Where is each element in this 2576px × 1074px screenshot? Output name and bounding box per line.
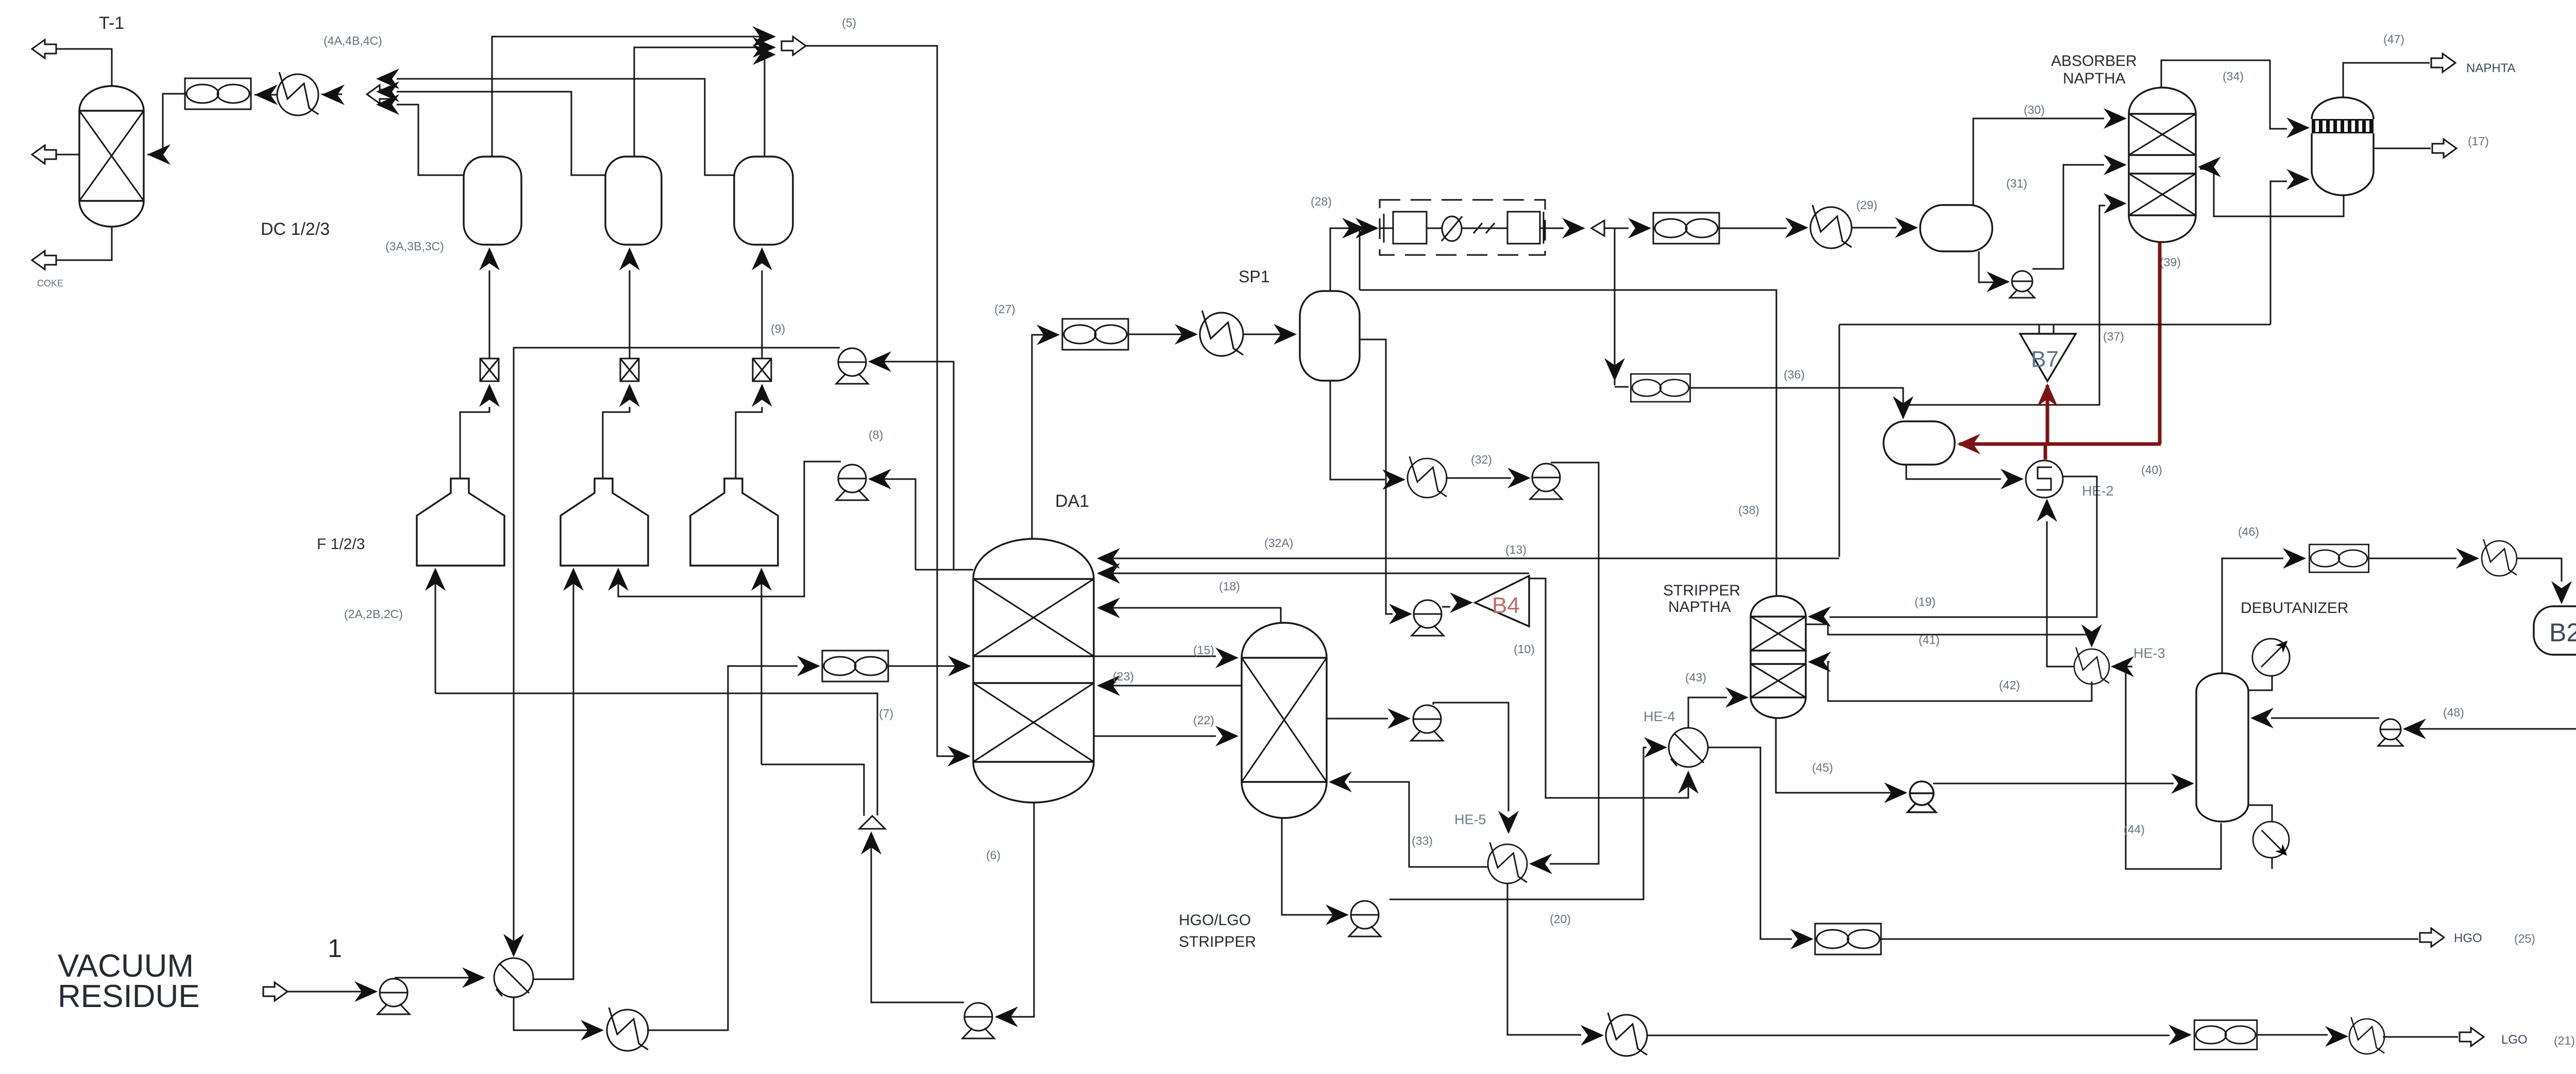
exchanger E-48: [2482, 539, 2517, 576]
pump P-31: [2010, 271, 2035, 298]
svg-text:(28): (28): [1311, 195, 1332, 208]
wire E-1 to E-2: [514, 997, 602, 1030]
air cooler (29a): [1653, 213, 1719, 244]
wire debutanizer bottoms to HE-3 (44): [2126, 667, 2221, 869]
junction (4A,4B,4C) open arrow: [367, 85, 391, 104]
svg-text:(43): (43): [1685, 671, 1706, 684]
pump P-9: [836, 348, 868, 384]
air cooler HGO: [1815, 924, 1881, 954]
wire valve1 to drum: [489, 270, 490, 359]
wire P31 to absorber (31): [2032, 165, 2104, 269]
wire stripperN bottoms to pump45: [1776, 718, 1905, 793]
wire feed to pump: [287, 991, 376, 993]
svg-text:HE-2: HE-2: [2082, 483, 2114, 499]
wire drum1 vapor to (5): [492, 37, 772, 157]
exchanger HE-3: [2074, 647, 2109, 684]
svg-text:(18): (18): [1219, 579, 1240, 593]
svg-text:(33): (33): [1412, 834, 1433, 847]
compressor B4 triangle: [1475, 576, 1529, 626]
wire branch to pump 9: [870, 361, 937, 363]
exchanger E-SP1: [1200, 311, 1243, 356]
wire T-1 bottom coke: [49, 227, 112, 260]
wire E-32 to pump: [1446, 478, 1511, 479]
svg-text:COKE: COKE: [37, 278, 63, 288]
column STRIPPER NAPTHA: [1751, 596, 1806, 718]
wire mixer to furnace3 line: [761, 764, 864, 816]
wire B20 bottoms to pump48: [2405, 655, 2576, 729]
svg-text:(34): (34): [2223, 70, 2244, 83]
pump P-22: [1411, 705, 1443, 741]
off-page arrow coke: [32, 251, 56, 269]
compressor dashed enclosure: [1380, 200, 1545, 255]
wire (13) recycle to DA1: [1099, 558, 1839, 559]
wire pump9 discharge to feed preheat: [514, 348, 840, 955]
column DA1: [973, 539, 1094, 803]
wire E-29 to drum D1: [1852, 227, 1896, 229]
svg-text:HE-3: HE-3: [2133, 645, 2165, 661]
svg-text:NAPHTA: NAPHTA: [2466, 61, 2516, 75]
svg-text:(29): (29): [1856, 198, 1877, 212]
svg-text:B4: B4: [1492, 593, 1520, 618]
svg-text:(39): (39): [2160, 255, 2181, 269]
svg-text:(15): (15): [1193, 643, 1214, 657]
svg-text:(2A,2B,2C): (2A,2B,2C): [344, 607, 403, 621]
svg-text:(13): (13): [1505, 543, 1527, 556]
svg-text:DC 1/2/3: DC 1/2/3: [261, 219, 330, 239]
wire drum2 vapor to (5): [634, 47, 772, 157]
wire HE-3 to HE-2 (19): [2047, 521, 2075, 667]
svg-text:(23): (23): [1113, 670, 1134, 683]
wire cooler to T-1: [147, 94, 185, 155]
wire HE-4 to stripper (43): [1688, 697, 1727, 728]
svg-text:RESIDUE: RESIDUE: [58, 979, 200, 1014]
svg-text:(5): (5): [842, 16, 856, 29]
red branch to B7: [2046, 385, 2049, 444]
wire stripper return (23): [1099, 685, 1242, 687]
svg-text:(42): (42): [1999, 678, 2020, 692]
svg-text:(31): (31): [2006, 177, 2027, 190]
wire pump20 discharge to HE-4: [1389, 747, 1647, 899]
wire drum D2 to absorber (37): [1903, 206, 2105, 405]
junction (5) open arrow: [782, 37, 806, 55]
off-page arrow T-1 side: [32, 145, 56, 164]
air cooler (46): [2309, 544, 2368, 572]
wire pump22 to HE-5: [1433, 703, 1509, 811]
drum B20: [2534, 606, 2576, 655]
red line absorber bottoms: [2158, 242, 2162, 444]
pump P-48: [2378, 719, 2403, 746]
wire B4 outlet (10): [1529, 578, 1688, 798]
svg-text:(37): (37): [2103, 330, 2124, 343]
wire drum3 overhead to junction: [397, 79, 734, 175]
compressor inlet tick: [1383, 214, 1385, 243]
wire D29 bottoms to pump: [1979, 251, 2008, 282]
svg-text:ABSORBER: ABSORBER: [2051, 53, 2137, 70]
mixer B7 triangle: [2020, 334, 2076, 381]
compressor coupling slashes: [1473, 223, 1495, 233]
wire valve3 to drum: [761, 270, 763, 359]
wire LGO cooler to E-LGO2: [2257, 1034, 2328, 1036]
wire DA1 bottoms to pump: [997, 803, 1034, 1017]
svg-text:(7): (7): [879, 707, 893, 720]
compressor stage 1 box: [1393, 212, 1427, 244]
furnace F-2: [561, 479, 648, 566]
svg-text:NAPTHA: NAPTHA: [2063, 70, 2126, 87]
wire LGO line to cooler: [1647, 1035, 2170, 1036]
wire pump8 discharge to furnace2: [618, 462, 841, 596]
wire valve2 to drum: [629, 270, 631, 359]
pump P-6: [962, 1003, 994, 1038]
svg-text:B20: B20: [2549, 618, 2576, 647]
svg-text:DA1: DA1: [1055, 491, 1089, 511]
wire hatch vessel bottoms return: [2200, 169, 2344, 216]
wire pump8 suction: [870, 479, 916, 570]
column ABSORBER: [2129, 88, 2196, 242]
air cooler (7): [822, 651, 888, 681]
wire furnace3 feed from mixer: [761, 570, 762, 764]
pump P-32: [1530, 464, 1562, 499]
svg-text:LGO: LGO: [2501, 1033, 2528, 1047]
compressor stage 2 box: [1507, 212, 1540, 244]
wire pump6 discharge to mixer: [871, 833, 964, 1002]
wire HE-5 bottoms LGO line: [1507, 883, 1581, 1035]
wire absorber overhead (34): [2161, 60, 2287, 129]
wire cooler27 to E-SP1: [1129, 334, 1196, 335]
wire stripper bottoms to pump20: [1282, 818, 1347, 915]
off-page arrow feed inlet: [263, 982, 287, 1001]
exchanger HE-5: [1488, 842, 1527, 883]
wire stripper side to pump22: [1327, 718, 1388, 720]
svg-text:HGO/LGO: HGO/LGO: [1179, 912, 1251, 929]
svg-text:(48): (48): [2443, 706, 2464, 719]
svg-text:1: 1: [328, 934, 342, 963]
svg-text:F 1/2/3: F 1/2/3: [317, 536, 365, 553]
svg-text:(45): (45): [1812, 761, 1833, 774]
wire (5) recycle down to DA1: [806, 46, 969, 756]
red line to drum D2: [1959, 442, 2161, 446]
wire B4 recycle to DA1: [1099, 573, 1529, 574]
off-page arrow HGO: [2420, 928, 2444, 947]
exchanger E-29: [1810, 205, 1852, 248]
arrowhead into T-1: [147, 144, 171, 165]
furnace F-3: [690, 479, 778, 566]
svg-text:(25): (25): [2514, 932, 2535, 945]
wire debutanizer overhead (46): [2222, 558, 2283, 673]
wire pump48 to debutanizer: [2271, 718, 2379, 719]
wire D29 vapor to absorber (30): [1973, 118, 2104, 205]
wire SP1 side draw to B4 pump: [1360, 339, 1393, 614]
wire E-2 outlet to cooler (7): [647, 666, 798, 1030]
mixer vent triangle: [859, 816, 885, 829]
wire D2 to HE-2: [1906, 465, 2001, 479]
drum SP1: [1300, 291, 1360, 381]
exchanger E-2: [607, 1008, 648, 1051]
valve V-3: [753, 359, 771, 381]
wire reboiler legs deb: [2248, 805, 2272, 869]
wire E-SP1 to SP1: [1243, 334, 1295, 335]
wire mixer to furnace1 header: [435, 693, 877, 815]
valve V-1: [480, 359, 499, 381]
wire furnace1 feed: [435, 570, 436, 693]
pump P-1 feed: [378, 979, 410, 1014]
exchanger E-LGO1: [1606, 1013, 1647, 1056]
exchanger E-1: [494, 958, 533, 997]
svg-text:(44): (44): [2124, 823, 2145, 836]
wire furnace2 outlet to valve: [603, 407, 630, 479]
wire HE-2 out to stripper (41): [1829, 476, 2097, 617]
svg-text:(27): (27): [994, 302, 1015, 316]
wire LGO product: [2383, 1036, 2458, 1038]
svg-text:(30): (30): [2024, 103, 2045, 116]
red stub to HE-2: [2044, 444, 2047, 459]
svg-text:(32): (32): [1471, 453, 1492, 466]
wire (36) to drum D2: [1690, 388, 1903, 417]
svg-text:(6): (6): [986, 848, 1001, 862]
svg-text:(19): (19): [1914, 595, 1936, 608]
wire pump to exchanger E-1: [395, 977, 483, 979]
wire SP1 bottoms to E-32: [1330, 381, 1385, 480]
svg-text:HE-4: HE-4: [1643, 709, 1675, 724]
svg-text:(40): (40): [2141, 463, 2162, 476]
wire drum3 vapor to (5): [765, 55, 772, 157]
air cooler LGO: [2194, 1020, 2257, 1050]
svg-text:HE-5: HE-5: [1454, 812, 1486, 827]
off-page arrow NAPHTA: [2431, 54, 2455, 72]
wire DA1 overhead to cooler (27): [1032, 335, 1058, 539]
off-page arrow T-1 top: [32, 40, 56, 58]
wire cooler46 to E-48: [2368, 558, 2456, 559]
exchanger HE-2: [2026, 461, 2063, 498]
wire HX to cooler: [255, 94, 277, 96]
coke drum DC-2: [605, 157, 662, 245]
wire SP1 overhead to compressor: [1330, 228, 1354, 291]
wire junction drop to cooler36: [1614, 228, 1616, 385]
svg-text:(46): (46): [2238, 525, 2259, 538]
wire to B20: [2516, 558, 2562, 582]
drum D-2: [1884, 421, 1955, 465]
svg-text:T-1: T-1: [99, 13, 124, 33]
svg-text:(17): (17): [2468, 134, 2489, 148]
exchanger HE-4: [1669, 728, 1708, 767]
svg-text:(38): (38): [1738, 503, 1759, 517]
exchanger E-32: [1408, 456, 1447, 498]
wire drum1 overhead to junction: [397, 105, 464, 175]
svg-text:(32A): (32A): [1264, 536, 1293, 550]
wire furnace3 outlet to valve: [736, 407, 762, 479]
reboiler debutanizer: [2253, 822, 2291, 859]
furnace F-1: [417, 479, 504, 566]
wire jog to DA1 dome: [937, 362, 954, 570]
junction small open arrow: [1591, 220, 1604, 236]
condenser debutanizer: [2252, 637, 2292, 676]
svg-text:(9): (9): [771, 322, 785, 335]
heat exchanger E-DC: [277, 72, 318, 115]
wire drum2 overhead to junction: [397, 92, 605, 175]
air cooler E-T1: [185, 78, 251, 109]
wire stripper overhead (18) to DA1: [1099, 608, 1281, 623]
wire hatch vessel top to naphta: [2343, 63, 2430, 97]
svg-text:NAPTHA: NAPTHA: [1668, 599, 1731, 616]
wire HE-4 outlet to HGO cooler: [1707, 747, 1792, 939]
wire stripper overhead to compressor: [1359, 230, 1361, 290]
wire junction to HX: [321, 94, 342, 95]
coke drum DC-1: [464, 157, 521, 245]
wire junction to cooler29: [1604, 228, 1629, 229]
wire T-1 side product: [49, 154, 79, 156]
wire HGO product: [1881, 939, 2418, 940]
pump P-B4: [1412, 600, 1444, 636]
wire B7 line to hatch vessel: [2270, 181, 2287, 325]
svg-text:(10): (10): [1514, 642, 1535, 656]
coke drum DC-3: [734, 157, 793, 245]
svg-text:SP1: SP1: [1239, 267, 1269, 286]
svg-text:(22): (22): [1193, 713, 1214, 727]
off-page arrow (17): [2432, 139, 2456, 158]
wire DA1 draw (22): [1094, 736, 1216, 737]
wire furnace2 feed from E-1: [533, 570, 573, 979]
wire condenser legs deb: [2248, 676, 2272, 690]
compressor motor ellipse: [1442, 216, 1462, 241]
wire furnace1 outlet to valve: [460, 407, 489, 479]
svg-text:(4A,4B,4C): (4A,4B,4C): [324, 34, 382, 47]
svg-text:HGO: HGO: [2454, 931, 2482, 945]
wire B7 header: [1839, 325, 2270, 334]
air cooler (27): [1062, 319, 1128, 350]
pump P-45: [1907, 781, 1936, 812]
pump P-20: [1349, 901, 1381, 936]
svg-text:(36): (36): [1784, 368, 1805, 381]
air cooler (36): [1631, 374, 1690, 402]
wire HE-3 bottom return (42): [1828, 662, 2092, 701]
wire cooler (7) to DA1: [888, 666, 969, 667]
wire stripper naphtha overhead (38): [1360, 290, 1776, 596]
wire P32 discharge to HE-5: [1550, 463, 1599, 864]
svg-text:(3A,3B,3C): (3A,3B,3C): [385, 240, 444, 253]
wire DA1 overhead header: [916, 569, 973, 571]
wire compressor outlet: [1545, 228, 1564, 229]
svg-text:B7: B7: [2031, 347, 2059, 372]
wire DA1 draw (15): [1094, 656, 1216, 657]
wire stripperN side draw to HE-3: [1806, 624, 2092, 639]
column HGO/LGO stripper: [1242, 623, 1327, 818]
wire pump45 to debutanizer: [1933, 783, 2174, 785]
drum D-29: [1920, 205, 1992, 251]
column T-1: [79, 86, 144, 227]
wire to cooler36: [1615, 386, 1629, 388]
column DEBUTANIZER: [2196, 673, 2248, 822]
valve V-2: [620, 359, 639, 381]
svg-text:DEBUTANIZER: DEBUTANIZER: [2241, 600, 2348, 617]
svg-text:STRIPPER: STRIPPER: [1179, 933, 1256, 950]
wire cooler29 to E-29: [1719, 228, 1787, 229]
svg-text:(21): (21): [2554, 1034, 2575, 1047]
wire T-1 top product: [49, 49, 112, 86]
exchanger E-LGO2: [2349, 1017, 2384, 1054]
pump P-8: [836, 465, 868, 500]
wire hatch vessel side (17): [2374, 148, 2431, 149]
wire pump to B4: [1442, 606, 1450, 608]
svg-text:(8): (8): [869, 428, 883, 441]
svg-text:STRIPPER: STRIPPER: [1663, 582, 1740, 599]
vessel hatch separator: [2312, 97, 2374, 195]
svg-text:(20): (20): [1550, 912, 1571, 926]
wire B7 header drop to (13): [1839, 325, 1840, 557]
svg-text:(47): (47): [2383, 32, 2404, 46]
wire HE-5 to stripper (33): [1349, 782, 1488, 867]
compressor link lines: [1380, 228, 1545, 229]
off-page arrow LGO: [2460, 1028, 2484, 1046]
